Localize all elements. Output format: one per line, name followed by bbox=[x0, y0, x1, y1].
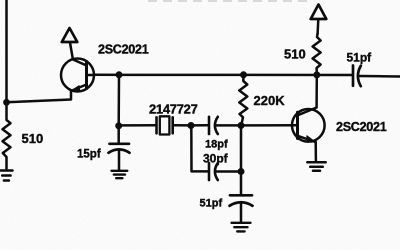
node F bbox=[240, 71, 247, 78]
ground G4 bbox=[307, 162, 325, 171]
wire output bbox=[360, 75, 400, 78]
crystal X1 21.47727 bbox=[119, 124, 156, 127]
node E bbox=[238, 168, 245, 175]
capacitor C4 51pf bbox=[240, 172, 243, 194]
resistor R3 510 bbox=[313, 34, 321, 75]
capacitor C1 15pf bbox=[117, 126, 120, 142]
svg-text:510: 510 bbox=[284, 47, 306, 62]
wire left input rail bbox=[5, 0, 8, 103]
svg-text:510: 510 bbox=[22, 131, 44, 146]
transistor Q2 2SC2021 bbox=[292, 109, 325, 142]
svg-text:15pf: 15pf bbox=[77, 149, 101, 161]
svg-text:18pf: 18pf bbox=[205, 139, 228, 151]
node left rail junction bbox=[3, 99, 10, 106]
node G bbox=[313, 71, 320, 78]
svg-text:220K: 220K bbox=[254, 93, 286, 108]
wire node D to Q2 base bbox=[241, 124, 298, 127]
wire node A to crystal node bbox=[117, 75, 120, 126]
power symbol V+ left bbox=[62, 28, 78, 42]
node B bbox=[115, 122, 122, 129]
ground G2 bbox=[112, 171, 128, 178]
scan artifact top edge bbox=[148, 0, 312, 2]
node D bbox=[238, 122, 245, 129]
resistor R1 510 bbox=[3, 102, 11, 168]
node A bbox=[116, 71, 123, 78]
ground G1 bbox=[1, 171, 13, 181]
power symbol V+ right bbox=[311, 5, 327, 20]
node C bbox=[188, 122, 195, 129]
ground G3 bbox=[232, 223, 251, 232]
svg-text:30pf: 30pf bbox=[203, 152, 229, 166]
svg-text:51pf: 51pf bbox=[347, 51, 373, 65]
capacitor C3 30pf bbox=[191, 126, 207, 172]
svg-text:2147727: 2147727 bbox=[149, 102, 198, 117]
wire emitter return Q1 bbox=[7, 91, 72, 103]
capacitor C2 18pf bbox=[191, 124, 208, 127]
svg-text:51pf: 51pf bbox=[200, 198, 223, 210]
transistor Q1 2SC2021 bbox=[61, 59, 94, 92]
wire main bus bbox=[94, 74, 353, 77]
svg-text:2SC2021: 2SC2021 bbox=[336, 120, 387, 134]
capacitor C5 51pf bbox=[352, 66, 355, 86]
svg-text:2SC2021: 2SC2021 bbox=[98, 43, 149, 57]
resistor R2 220K bbox=[239, 75, 247, 126]
